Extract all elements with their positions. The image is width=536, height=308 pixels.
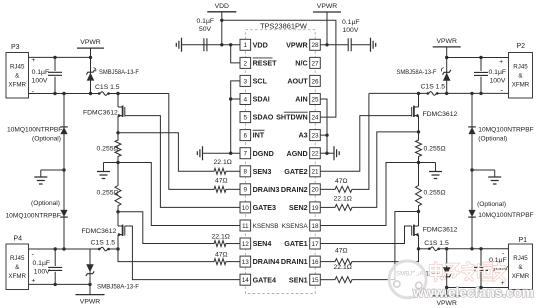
svg-text:VDD: VDD [253,40,268,49]
wire SEN2 route [354,132,419,208]
diode 10MQ100NTRPBF (port1, optional) [468,210,475,217]
resistor 0.255ohm (port3 sense) [117,133,119,139]
svg-text:100V: 100V [34,268,50,275]
svg-text:23: 23 [311,133,319,140]
ground DGND (left-pointing) [197,146,202,160]
resistor 47ohm (DRAIN1) [333,259,354,265]
pin 14 GATE4 [240,274,251,285]
wire P1 minus rail [419,248,430,250]
pin 25 AIN [310,94,321,105]
connector P1 RJ45 & XFMR [509,244,533,290]
wire to ground [472,169,495,171]
wire GATE1 route [320,226,411,244]
ground (10MQ right) [488,177,501,184]
TVS D SMBJ58A-13-F (port1) [446,249,448,288]
fuse F C1S 1.5 (port4) [98,248,101,251]
svg-text:10MQ100NTRPBF: 10MQ100NTRPBF [7,127,62,134]
svg-text:100V: 100V [343,27,359,34]
svg-text:RJ45: RJ45 [513,64,528,71]
svg-text:0.1µF: 0.1µF [197,18,215,25]
svg-text:SMBJ58A-13-F: SMBJ58A-13-F [99,69,139,76]
svg-text:N/C: N/C [295,58,307,67]
pin 27 N/C [310,57,321,68]
svg-text:18: 18 [311,223,319,230]
VPWR symbol (port2) [433,46,461,48]
svg-text:27: 27 [311,60,319,67]
svg-text:47Ω: 47Ω [215,251,228,258]
ground AGND (right-pointing) [334,146,339,160]
svg-text:AIN: AIN [295,95,307,104]
wire P3 minus rail [29,93,100,95]
connector P4 RJ45 & XFMR [6,244,29,290]
pin 24 SHTDWN [310,112,321,123]
wire P1 plus rail [447,287,509,289]
wire GATE3 route [125,116,240,208]
wire VPWR stem to pin28 [326,12,328,45]
pin 17 GATE1 [310,238,321,249]
wire 10MQ column right [471,93,473,170]
pin 15 SEN1 [310,274,321,285]
wire fuse to drain node [109,93,169,95]
svg-text:12: 12 [242,241,250,248]
svg-text:GATE2: GATE2 [284,167,307,176]
resistor 0.255ohm (port4 sense) [115,184,121,207]
svg-text:VDD: VDD [215,3,229,10]
svg-text:100V: 100V [490,78,506,85]
svg-text:VPWR: VPWR [80,39,100,46]
pin 21 GATE2 [310,166,321,177]
svg-text:26: 26 [311,78,319,85]
wire DRAIN1 route [354,249,419,262]
svg-text:+: + [32,278,36,285]
wire P2 minus rail [369,92,429,94]
transistor Q FDMC3612 (port3) [117,94,119,108]
VPWR symbol (port4) [89,284,91,294]
svg-text:P4: P4 [14,236,23,243]
node DGND junction [229,152,232,155]
pin 18 KSENSA [310,220,321,231]
svg-text:24: 24 [311,114,319,121]
wire 10MQ column lower right [471,170,473,249]
node SEN3 tap [116,131,119,134]
pin 23 A3 [310,130,321,141]
svg-text:VPWR: VPWR [317,3,337,10]
svg-text:P1: P1 [518,237,527,244]
wire DRAIN2 route [354,93,369,189]
svg-text:16: 16 [311,259,319,266]
node SEN4 tap [116,210,119,213]
node FET4 drain / fuse [417,247,420,250]
svg-text:22.1Ω: 22.1Ω [214,159,232,166]
resistor 0.255ohm (port2 sense) [418,132,420,139]
svg-text:10MQ100NTRPBF: 10MQ100NTRPBF [478,127,533,134]
wire KSENSB route [118,163,240,226]
node A3 junction [325,133,328,136]
svg-text:22.1Ω: 22.1Ω [334,264,352,271]
svg-text:10MQ100NTRPBF: 10MQ100NTRPBF [6,212,61,219]
IC U1 TPS23861PW dashed outline [245,30,315,294]
wire DGND to ground [203,152,231,154]
svg-text:100V: 100V [32,78,48,85]
svg-text:DRAIN4: DRAIN4 [253,257,280,266]
svg-text:DRAIN2: DRAIN2 [281,185,308,194]
svg-text:8: 8 [244,169,248,176]
svg-text:0.255Ω: 0.255Ω [97,146,119,153]
pin 4 SDAI [240,94,251,105]
wire 10MQ column lower [63,170,65,249]
wire AGND to ground [320,152,334,154]
pin 20 DRAIN2 [310,184,321,195]
VPWR symbol (port1) [446,288,448,296]
ground (left of VDD cap) [176,38,181,52]
svg-text:www.elecfans.com: www.elecfans.com [412,284,534,300]
node SEN1 tap [417,210,420,213]
svg-text:0.255Ω: 0.255Ω [424,190,446,197]
svg-text:22.1Ω: 22.1Ω [212,234,230,241]
svg-text:2: 2 [244,60,248,67]
svg-text:XFMR: XFMR [8,273,26,280]
svg-text:INT: INT [253,131,265,140]
svg-text:GATE1: GATE1 [284,239,307,248]
ground (right of VPWR cap) [371,38,376,52]
wire SCL/SDAI/DGND strap [231,81,240,153]
node SEN2 tap [417,130,420,133]
TVS D SMBJ58A-13-F (port3) [90,57,92,93]
VPWR power symbol (top middle) [313,11,341,13]
wire GATE2 route [320,116,411,172]
svg-text:SEN1: SEN1 [289,275,308,284]
svg-text:22: 22 [311,151,319,158]
svg-text:28: 28 [311,42,319,49]
diode 10MQ100NTRPBF (port4, optional) [60,210,67,217]
pin 3 SCL [240,75,251,86]
svg-text:14: 14 [242,277,250,284]
resistor 22.1ohm (SEN4) [212,241,228,247]
svg-text:15: 15 [311,277,319,284]
fuse F C1S 1.5 (port1) [428,248,431,251]
svg-text:DRAIN1: DRAIN1 [281,257,308,266]
wire GATE4 route [125,226,240,280]
svg-text:FDMC3612: FDMC3612 [423,227,458,234]
connector P2 RJ45 & XFMR [509,53,533,99]
ground (10MQ left) [34,177,47,184]
svg-text:4: 4 [244,96,248,103]
resistor 22.1ohm (SEN1) [333,277,354,283]
wire A3 stub [320,134,327,136]
TVS D SMBJ58A-13-F (port2) [446,58,448,93]
VDD power symbol [207,11,236,13]
diode 10MQ100NTRPBF (port2, optional) [468,127,475,134]
svg-text:(Optional): (Optional) [477,201,506,208]
wire cap to ground [182,44,204,46]
svg-text:FDMC3612: FDMC3612 [423,111,458,118]
svg-text:SMBJ58A-13-F: SMBJ58A-13-F [397,69,437,76]
wire 10MQ column [63,94,65,171]
svg-text:SMBJ58A-13-F: SMBJ58A-13-F [97,283,139,290]
resistor 22.1ohm (SEN3) [212,168,228,174]
svg-text:1: 1 [244,42,248,49]
node mid ground tap [62,168,65,171]
svg-text:SDAI: SDAI [253,95,270,104]
svg-text:(Optional): (Optional) [32,136,61,143]
pin 13 DRAIN4 [240,256,251,267]
pin 26 AOUT [310,75,321,86]
resistor 47ohm (DRAIN2) [333,186,354,192]
wire VPWR stem [90,48,92,57]
wire to shared ground [104,162,119,164]
svg-text:SCL: SCL [253,77,268,86]
svg-text:DRAIN3: DRAIN3 [253,185,280,194]
svg-text:TPS23861PW: TPS23861PW [260,21,307,30]
pin 6 INT [240,130,251,141]
wire P2 plus rail [447,57,509,59]
wire SEN3 route [118,133,212,171]
svg-text:13: 13 [242,259,250,266]
svg-text:SEN4: SEN4 [253,239,272,248]
svg-text:SEN3: SEN3 [253,167,272,176]
svg-text:FDMC3612: FDMC3612 [83,110,118,117]
wire pin28 to bypass cap [320,44,348,46]
watermark logo circle [389,261,426,298]
svg-text:SDAO: SDAO [253,113,274,122]
fuse F C1S 1.5 (port3) [98,92,101,95]
capacitor C 0.1uF 100V (port2) [480,58,482,72]
svg-text:47Ω: 47Ω [335,178,348,185]
wire SEN4 route [118,212,212,244]
pin 1 VDD [240,39,251,50]
svg-text:11: 11 [242,223,249,230]
svg-text:(Optional): (Optional) [478,136,507,143]
capacitor C 0.1uF 100V (port3) [54,57,56,71]
svg-text:XFMR: XFMR [512,273,530,280]
capacitor C 0.1uF 100V (port1) [480,249,482,266]
resistor 47ohm (DRAIN3) [212,186,228,192]
pin 10 GATE3 [240,202,251,213]
wire to ground [41,169,64,171]
svg-text:C1S 1.5: C1S 1.5 [424,240,449,247]
wire VDD stem [221,12,223,45]
svg-text:DGND: DGND [253,149,274,158]
svg-text:SHTDWN: SHTDWN [276,113,308,122]
wire KSENSA route [320,163,418,226]
svg-text:XFMR: XFMR [512,82,530,89]
svg-text:5: 5 [244,114,248,121]
svg-text:20: 20 [311,187,319,194]
svg-text:FDMC3612: FDMC3612 [82,228,117,235]
node VDD/pin1 junction [220,43,223,46]
capacitor C 0.1uF 100V (port4) [54,249,56,266]
capacitor 0.1uF 100V (VPWR bypass) [348,38,351,51]
fuse F C1S 1.5 (port2) [427,92,430,95]
svg-text:+: + [32,57,36,64]
wire P4 plus rail [29,283,91,285]
svg-text:(Optional): (Optional) [31,200,60,207]
pin 7 DGND [240,148,251,159]
wire P4 minus rail [29,248,100,250]
svg-text:KSENSB: KSENSB [253,223,279,230]
svg-text:47Ω: 47Ω [215,177,228,184]
wire VDD to SHTDWN rail [220,19,223,22]
pin 28 VPWR [310,39,321,50]
svg-text:10: 10 [242,205,250,212]
svg-text:C1S 1.5: C1S 1.5 [91,240,116,247]
pin 12 SEN4 [240,238,251,249]
wire AIN/A3/AGND strap [320,99,327,153]
pin 8 SEN3 [240,166,251,177]
pin 11 KSENSB [240,220,251,231]
diode 10MQ100NTRPBF (port3, optional) [60,127,67,134]
resistor 0.255ohm (port1 sense) [416,184,422,207]
svg-text:P3: P3 [11,44,20,51]
wire pin1 to VDD node [204,44,241,46]
svg-text:VPWR: VPWR [286,40,308,49]
pin 9 DRAIN3 [240,184,251,195]
svg-text:21: 21 [311,169,319,176]
transistor Q FDMC3612 (port1) [418,212,420,227]
svg-text:0.1µF: 0.1µF [32,69,50,76]
svg-text:AGND: AGND [287,149,308,158]
svg-text:7: 7 [244,151,248,158]
svg-text:22.1Ω: 22.1Ω [334,196,352,203]
svg-text:10MQ100NTRPBF: 10MQ100NTRPBF [478,212,533,219]
ground (shared sense right) [429,172,442,179]
svg-text:SEN2: SEN2 [289,203,308,212]
resistor 47ohm (DRAIN4) [212,259,228,265]
pin 16 DRAIN1 [310,256,321,267]
wire VPWR stem [446,47,448,58]
svg-text:17: 17 [311,241,319,248]
svg-text:25: 25 [311,96,319,103]
svg-text:GATE3: GATE3 [253,203,276,212]
node sense/ground right [417,161,420,164]
svg-text:3: 3 [244,78,248,85]
svg-text:0.1µF: 0.1µF [342,19,360,26]
capacitor 0.1uF 50V (VDD bypass) [204,38,207,51]
node AGND junction [325,152,328,155]
svg-text:47Ω: 47Ω [335,248,348,255]
svg-text:0.255Ω: 0.255Ω [424,146,446,153]
node FET2 drain / fuse [116,247,119,250]
wire DRAIN3 route [169,94,212,190]
svg-text:AOUT: AOUT [287,77,308,86]
wire SDAI stub [231,98,240,100]
svg-text:C1S 1.5: C1S 1.5 [421,84,446,91]
svg-text:RJ45: RJ45 [10,255,25,262]
svg-text:RESET: RESET [253,58,278,67]
TVS D SMBJ58A-13-F (port4) [89,249,91,284]
VPWR symbol (port3) [77,47,104,49]
svg-text:C1S 1.5: C1S 1.5 [95,84,120,91]
svg-text:0.1µF: 0.1µF [33,260,51,267]
svg-text:VPWR: VPWR [436,300,456,307]
wire fuse to FET2 drain [109,248,118,250]
svg-text:P2: P2 [517,43,526,50]
pin 2 RESET [240,57,251,68]
svg-text:0.1µF: 0.1µF [489,69,507,76]
ground (shared sense) [97,172,110,179]
svg-text:XFMR: XFMR [8,82,26,89]
node mid ground tap right [470,168,473,171]
svg-text:VPWR: VPWR [80,299,100,306]
svg-text:GATE4: GATE4 [253,275,276,284]
wire to shared ground [419,162,436,164]
node SDAI junction [229,97,232,100]
svg-text:RJ45: RJ45 [513,255,528,262]
svg-text:19: 19 [311,205,319,212]
pin 22 AGND [310,148,321,159]
wire RESET tie to VDD [231,45,240,63]
svg-text:VPWR: VPWR [436,38,456,45]
wire cap to ground [351,44,370,46]
pin 19 SEN2 [310,202,321,213]
svg-text:+: + [499,59,503,66]
svg-text:50V: 50V [199,26,212,33]
connector P3 RJ45 & XFMR [6,53,29,99]
wire P3 plus rail [29,56,91,58]
svg-text:0.255Ω: 0.255Ω [97,190,119,197]
wire DRAIN4 route [118,249,212,262]
transistor Q FDMC3612 (port4) [117,212,119,226]
svg-text:9: 9 [244,187,248,194]
pin 5 SDAO [240,112,251,123]
resistor 22.1ohm (SEN2) [333,204,354,210]
svg-text:6: 6 [244,133,248,140]
transistor Q FDMC3612 (port2) [418,93,420,107]
watermark text dianzifashaoyou (stylized vector glyphs) [431,263,445,281]
wire SEN1 route [354,212,419,280]
svg-text:KSENSA: KSENSA [282,223,309,230]
svg-text:A3: A3 [298,131,307,140]
node sense/ground [116,161,119,164]
svg-text:RJ45: RJ45 [10,64,25,71]
